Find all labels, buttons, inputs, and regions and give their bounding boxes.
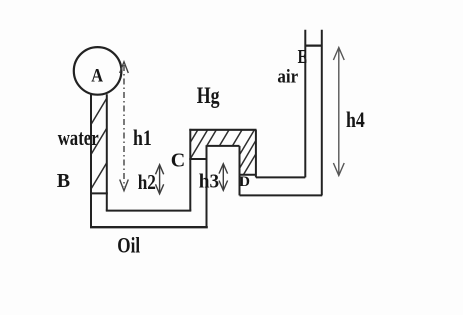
svg-text:h3: h3 bbox=[199, 171, 219, 193]
left tube outer wall bbox=[90, 94, 92, 226]
h2 double arrow bbox=[156, 165, 164, 194]
mercury vessel inner top wall bbox=[207, 145, 240, 147]
svg-text:C: C bbox=[171, 149, 185, 171]
svg-text:D: D bbox=[239, 173, 250, 190]
water hatch lines in left tube bbox=[91, 98, 107, 189]
mercury hatch lines in inverted U vessel bbox=[190, 130, 256, 175]
D tube top wall bbox=[256, 176, 305, 178]
h4 double arrow bbox=[333, 48, 344, 176]
oil tube inner top wall bbox=[106, 210, 192, 212]
svg-text:E: E bbox=[298, 47, 308, 68]
left tube inner wall bbox=[106, 94, 108, 210]
h1 arrow top head bbox=[120, 62, 129, 73]
middle tube right wall bbox=[206, 145, 208, 227]
mercury vessel outer top wall bbox=[189, 129, 256, 131]
node C mercury level line bbox=[189, 158, 207, 160]
vessel A circle bbox=[74, 47, 122, 95]
svg-text:A: A bbox=[91, 66, 103, 87]
svg-text:h4: h4 bbox=[346, 107, 365, 132]
svg-text:h1: h1 bbox=[133, 125, 152, 150]
mercury vessel right outer wall bbox=[255, 130, 257, 178]
h1 arrow bottom head bbox=[120, 180, 129, 191]
svg-text:Oil: Oil bbox=[117, 233, 140, 258]
node E liquid level line bbox=[305, 44, 323, 46]
middle tube left wall bbox=[189, 129, 191, 211]
air tube left wall bbox=[304, 30, 306, 178]
svg-text:air: air bbox=[277, 67, 298, 87]
node B water-oil interface line bbox=[90, 192, 108, 194]
h3 double arrow bbox=[219, 164, 228, 191]
svg-text:Hg: Hg bbox=[197, 83, 220, 108]
svg-text:water: water bbox=[58, 125, 99, 150]
h1 arrow dash-dot line bbox=[123, 65, 125, 187]
D tube bottom wall bbox=[240, 194, 323, 196]
node D mercury level line bbox=[239, 174, 257, 176]
oil tube outer bottom wall bbox=[90, 226, 208, 228]
air tube right wall bbox=[321, 30, 323, 196]
mercury vessel right inner wall bbox=[239, 146, 241, 196]
svg-text:h2: h2 bbox=[138, 170, 156, 194]
svg-text:B: B bbox=[57, 170, 70, 192]
